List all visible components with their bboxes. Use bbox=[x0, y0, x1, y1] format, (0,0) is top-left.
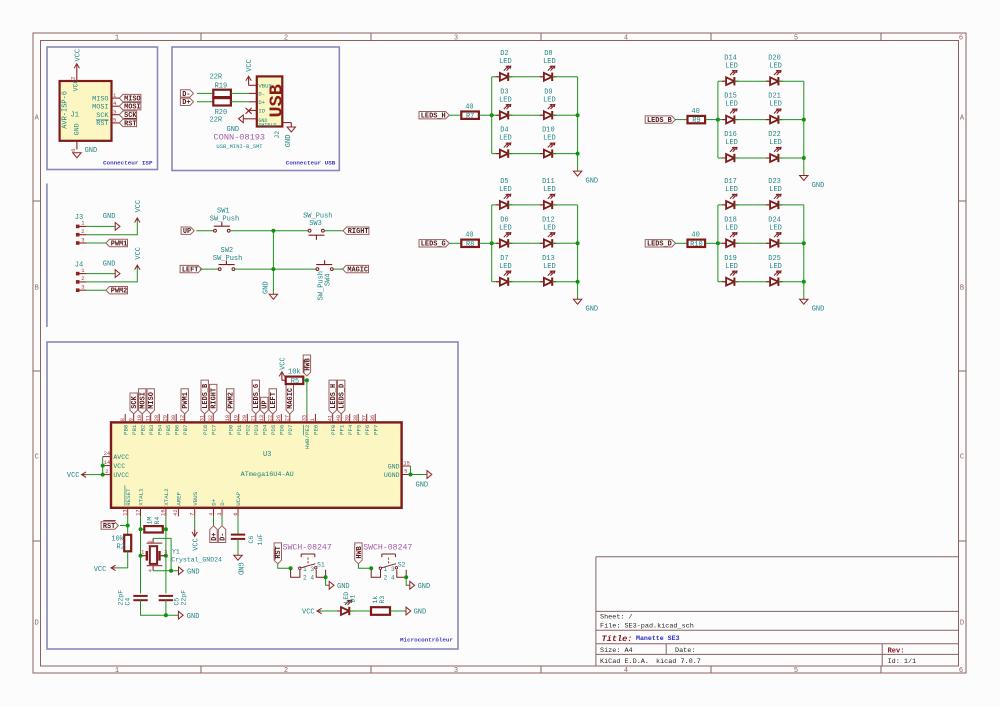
wire R19 to USB bbox=[231, 92, 249, 94]
svg-text:LED: LED bbox=[769, 139, 782, 147]
svg-text:C6: C6 bbox=[248, 536, 255, 544]
svg-text:Rev:: Rev: bbox=[888, 648, 905, 656]
svg-text:B: B bbox=[35, 285, 39, 293]
resistor R10 bbox=[688, 240, 706, 247]
svg-text:5: 5 bbox=[794, 667, 798, 675]
svg-text:2: 2 bbox=[284, 34, 288, 42]
svg-text:RIGHT: RIGHT bbox=[211, 388, 219, 409]
MCU top pins bbox=[124, 414, 126, 423]
svg-text:PB5: PB5 bbox=[165, 424, 172, 435]
svg-text:LED: LED bbox=[725, 224, 738, 232]
wire VCC to D1 bbox=[321, 610, 341, 612]
svg-text:R9: R9 bbox=[692, 117, 700, 125]
svg-text:UP: UP bbox=[262, 400, 270, 408]
svg-text:2 4: 2 4 bbox=[384, 574, 395, 581]
svg-text:33: 33 bbox=[302, 415, 308, 421]
svg-text:LED: LED bbox=[499, 263, 512, 271]
svg-text:SW4: SW4 bbox=[324, 273, 332, 286]
LED D12 bbox=[540, 242, 544, 244]
ground J3 bbox=[115, 223, 120, 231]
svg-text:PD4: PD4 bbox=[261, 424, 268, 435]
wire LEFT to SW2 bbox=[200, 268, 219, 270]
svg-text:D9: D9 bbox=[544, 88, 552, 96]
wire R2 to VCC bbox=[115, 551, 128, 568]
wire D- bbox=[197, 92, 213, 94]
hier label HWB at switch S2 bbox=[355, 543, 362, 564]
svg-text:10: 10 bbox=[137, 415, 143, 421]
svg-text:3: 3 bbox=[454, 34, 458, 42]
svg-text:R19: R19 bbox=[215, 82, 228, 90]
svg-text:D20: D20 bbox=[768, 54, 781, 62]
svg-text:PB6: PB6 bbox=[173, 424, 180, 435]
svg-text:PD2: PD2 bbox=[244, 424, 251, 435]
J1 pin 6 GND bbox=[76, 141, 78, 150]
svg-text:VBUS: VBUS bbox=[258, 82, 272, 89]
ground S1 bbox=[329, 581, 334, 589]
svg-text:LED: LED bbox=[499, 135, 512, 143]
svg-text:GND: GND bbox=[103, 213, 116, 221]
LED D11 bbox=[540, 204, 544, 206]
svg-text:XTAL2: XTAL2 bbox=[163, 488, 170, 506]
svg-text:LEDS_B: LEDS_B bbox=[647, 117, 672, 125]
svg-text:LED: LED bbox=[543, 135, 556, 143]
svg-text:KiCad E.D.A.: KiCad E.D.A. bbox=[600, 658, 649, 666]
svg-text:41: 41 bbox=[327, 415, 333, 421]
ground LEDS_G bbox=[573, 299, 581, 304]
ground crystal bbox=[179, 567, 184, 575]
resistor R8 bbox=[461, 240, 479, 247]
svg-text:Y1: Y1 bbox=[172, 548, 180, 555]
svg-text:PB0: PB0 bbox=[122, 424, 129, 435]
svg-text:GND: GND bbox=[187, 569, 200, 577]
svg-text:PD0: PD0 bbox=[227, 424, 234, 435]
resistor R7 bbox=[461, 112, 479, 119]
svg-text:PF5: PF5 bbox=[355, 424, 362, 435]
svg-text:5: 5 bbox=[113, 117, 116, 124]
svg-text:LED: LED bbox=[499, 96, 512, 104]
LED D22 bbox=[766, 157, 770, 159]
svg-text:31: 31 bbox=[199, 415, 205, 421]
svg-text:D+: D+ bbox=[211, 498, 218, 505]
svg-text:Microcontrôleur: Microcontrôleur bbox=[400, 636, 453, 643]
svg-text:PC6: PC6 bbox=[202, 424, 209, 435]
svg-text:LEDS_G: LEDS_G bbox=[253, 384, 261, 409]
svg-text:D18: D18 bbox=[724, 216, 737, 224]
svg-text:D16: D16 bbox=[724, 131, 737, 139]
svg-text:3: 3 bbox=[113, 109, 116, 116]
svg-text:LEDS_G: LEDS_G bbox=[421, 241, 446, 249]
right rail LEDS_B bbox=[803, 81, 805, 158]
svg-text:1: 1 bbox=[141, 550, 144, 556]
wire S1 to ground bbox=[326, 577, 330, 585]
wire D1 to R3 bbox=[349, 610, 371, 612]
svg-text:40: 40 bbox=[465, 104, 473, 112]
hier label LEDS_D bbox=[645, 240, 675, 247]
svg-text:LED: LED bbox=[769, 186, 782, 194]
wire R3 to ground bbox=[390, 610, 406, 612]
svg-text:LED: LED bbox=[725, 186, 738, 194]
svg-text:VCC: VCC bbox=[302, 609, 315, 617]
svg-text:1M: 1M bbox=[147, 517, 154, 525]
svg-text:PC7: PC7 bbox=[210, 424, 217, 435]
svg-text:1: 1 bbox=[115, 34, 119, 42]
svg-text:D24: D24 bbox=[768, 216, 781, 224]
svg-text:40: 40 bbox=[336, 415, 342, 421]
resistor R9 bbox=[688, 116, 706, 123]
crystal Y1 Crystal_GND24 bbox=[141, 555, 145, 557]
svg-text:2: 2 bbox=[70, 76, 77, 79]
hier label LEFT at MCU bbox=[269, 389, 276, 414]
svg-text:SCK: SCK bbox=[96, 112, 109, 120]
svg-text:LED: LED bbox=[499, 58, 512, 66]
svg-text:18: 18 bbox=[225, 415, 231, 421]
svg-text:VCC: VCC bbox=[94, 566, 107, 574]
svg-text:VCC: VCC bbox=[135, 200, 143, 213]
svg-text:ID: ID bbox=[258, 107, 265, 114]
svg-text:LED: LED bbox=[769, 101, 782, 109]
svg-text:PWM2: PWM2 bbox=[111, 288, 128, 296]
svg-text:2: 2 bbox=[81, 275, 84, 282]
svg-text:C5: C5 bbox=[173, 598, 180, 606]
svg-text:R7: R7 bbox=[466, 113, 474, 121]
svg-text:Sheet: /: Sheet: / bbox=[600, 614, 633, 622]
no-connect X on ID pin bbox=[246, 108, 252, 114]
junction LEDS_G row2 bbox=[576, 241, 580, 245]
ground LEDS_H bbox=[573, 171, 581, 176]
hier label PWM2 at MCU bbox=[227, 389, 234, 414]
ground D1 R3 bbox=[406, 607, 411, 615]
svg-text:7: 7 bbox=[190, 513, 196, 516]
svg-text:26: 26 bbox=[276, 415, 282, 421]
wire J4 pin1 to ground bbox=[86, 273, 115, 275]
svg-text:14: 14 bbox=[104, 460, 110, 466]
svg-text:13: 13 bbox=[123, 509, 129, 515]
LED D7 bbox=[492, 281, 500, 283]
svg-text:D-: D- bbox=[258, 90, 265, 97]
svg-text:MISO: MISO bbox=[148, 392, 156, 409]
LED D17 bbox=[718, 204, 726, 206]
hier label RST at switch S1 bbox=[274, 543, 281, 564]
svg-text:D6: D6 bbox=[500, 216, 508, 224]
svg-text:5: 5 bbox=[404, 469, 407, 475]
svg-text:D22: D22 bbox=[768, 131, 781, 139]
ground J4 bbox=[115, 270, 120, 278]
svg-text:4: 4 bbox=[208, 513, 214, 516]
hier label MOSI bbox=[119, 103, 141, 110]
svg-text:VBUS: VBUS bbox=[192, 491, 199, 505]
svg-text:MAGIC: MAGIC bbox=[287, 388, 295, 409]
wire LEDS_D to ground bbox=[803, 282, 805, 300]
svg-text:RIGHT: RIGHT bbox=[348, 228, 369, 236]
svg-text:GND: GND bbox=[235, 562, 243, 575]
hier label PWM1 at MCU bbox=[181, 389, 188, 414]
hier label RST at MCU bbox=[101, 522, 118, 529]
svg-text:HWB/PE2: HWB/PE2 bbox=[304, 424, 311, 449]
svg-text:R10: R10 bbox=[690, 241, 703, 249]
svg-text:22: 22 bbox=[267, 415, 273, 421]
ground MCU right bbox=[427, 471, 432, 479]
svg-text:LEDS_B: LEDS_B bbox=[202, 384, 210, 409]
svg-text:GND: GND bbox=[418, 583, 431, 591]
LED D18 bbox=[718, 242, 726, 244]
USB pin stubs bbox=[249, 84, 257, 86]
hier label MAGIC bbox=[343, 265, 369, 272]
LED D9 bbox=[540, 114, 544, 116]
svg-text:40: 40 bbox=[691, 232, 699, 240]
svg-text:SWCH-08247: SWCH-08247 bbox=[283, 543, 332, 552]
connector J2 USB body bbox=[257, 76, 283, 126]
svg-text:R4: R4 bbox=[154, 517, 161, 525]
svg-text:30: 30 bbox=[171, 415, 177, 421]
svg-text:29: 29 bbox=[162, 415, 168, 421]
left rail LEDS_H bbox=[491, 77, 493, 154]
svg-text:8: 8 bbox=[120, 418, 126, 421]
svg-text:PF4: PF4 bbox=[347, 424, 354, 435]
section box Connecteur ISP bbox=[47, 47, 158, 170]
svg-text:1: 1 bbox=[115, 667, 119, 675]
capacitor C6 1uF bbox=[237, 516, 239, 534]
hier label RIGHT at MCU bbox=[210, 384, 217, 414]
section box Connecteur USB bbox=[172, 47, 339, 171]
svg-text:SW1: SW1 bbox=[217, 207, 230, 215]
svg-text:40: 40 bbox=[691, 108, 699, 116]
svg-text:VCC: VCC bbox=[246, 59, 254, 72]
svg-text:GND: GND bbox=[187, 613, 200, 621]
LED D19 bbox=[718, 281, 726, 283]
junction after R9 bbox=[705, 119, 718, 121]
hier label UP bbox=[181, 227, 194, 234]
hier label HWB bbox=[303, 355, 310, 376]
svg-text:MOSI: MOSI bbox=[140, 392, 148, 409]
LED D3 bbox=[492, 114, 500, 116]
svg-text:C: C bbox=[960, 454, 964, 462]
MCU right pins GND UGND bbox=[402, 465, 411, 467]
svg-text:21: 21 bbox=[250, 415, 256, 421]
hier label LEDS_H bbox=[419, 112, 449, 119]
svg-text:SHIELD: SHIELD bbox=[258, 122, 276, 128]
svg-text:GND: GND bbox=[85, 147, 98, 155]
power VCC MCU left bbox=[83, 474, 86, 476]
LED D5 bbox=[492, 204, 500, 206]
wire LEDS_D to R10 bbox=[675, 242, 687, 244]
svg-text:AREF: AREF bbox=[176, 491, 183, 505]
hier label MOSI at MCU bbox=[139, 389, 146, 414]
svg-text:LEFT: LEFT bbox=[270, 392, 278, 409]
svg-text:GND: GND bbox=[285, 135, 293, 148]
svg-text:Connecteur USB: Connecteur USB bbox=[286, 160, 336, 167]
svg-text:3: 3 bbox=[81, 284, 84, 291]
svg-text:D11: D11 bbox=[542, 178, 555, 186]
svg-text:SW3: SW3 bbox=[309, 220, 322, 228]
svg-text:S2: S2 bbox=[398, 561, 406, 568]
svg-text:VCC: VCC bbox=[280, 357, 288, 370]
svg-text:SW2: SW2 bbox=[221, 247, 234, 255]
hier label D- input bbox=[180, 90, 193, 97]
svg-text:D2: D2 bbox=[500, 50, 508, 58]
svg-text:12: 12 bbox=[179, 415, 185, 421]
svg-text:D+: D+ bbox=[182, 99, 190, 107]
wire LEDS_G to ground bbox=[577, 282, 579, 300]
svg-text:20: 20 bbox=[242, 415, 248, 421]
svg-text:LED: LED bbox=[543, 224, 556, 232]
svg-text:D7: D7 bbox=[500, 255, 508, 263]
svg-text:AVR-ISP-6: AVR-ISP-6 bbox=[61, 91, 69, 129]
svg-text:D-: D- bbox=[219, 499, 226, 506]
svg-text:USB_MINI-B_SMT: USB_MINI-B_SMT bbox=[216, 143, 263, 150]
svg-text:C4: C4 bbox=[124, 598, 131, 606]
svg-text:PD7: PD7 bbox=[287, 424, 294, 435]
svg-text:4: 4 bbox=[624, 34, 628, 42]
hier label D+ input bbox=[180, 98, 193, 105]
svg-text:3: 3 bbox=[454, 667, 458, 675]
svg-text:PE6: PE6 bbox=[313, 424, 320, 435]
resistor R19 bbox=[213, 90, 231, 97]
svg-text:1 3: 1 3 bbox=[384, 566, 395, 573]
svg-text:RESET: RESET bbox=[125, 488, 132, 506]
svg-text:HWB: HWB bbox=[304, 358, 312, 370]
junction LEDS_B row2 bbox=[802, 118, 806, 122]
svg-text:VCC: VCC bbox=[192, 538, 200, 551]
power VCC J4 bbox=[136, 266, 138, 268]
connector J1 AVR-ISP-6 body bbox=[60, 81, 112, 141]
svg-text:RST: RST bbox=[96, 120, 108, 128]
ground C6 bbox=[234, 555, 242, 560]
svg-text:6: 6 bbox=[959, 34, 963, 42]
svg-text:32: 32 bbox=[208, 415, 214, 421]
hier label LEDS_H at MCU bbox=[329, 380, 336, 414]
power VCC VBUS pin bbox=[194, 516, 196, 529]
svg-text:2: 2 bbox=[284, 667, 288, 675]
svg-text:GND: GND bbox=[416, 481, 429, 489]
svg-text:27: 27 bbox=[284, 415, 290, 421]
svg-text:GND: GND bbox=[586, 306, 599, 314]
wire LEDS_G to R8 bbox=[449, 242, 461, 244]
wire junction to SW3 bbox=[273, 230, 308, 232]
svg-text:28: 28 bbox=[154, 415, 160, 421]
left rail LEDS_G bbox=[491, 205, 493, 282]
junction switches row1 bbox=[271, 229, 275, 233]
svg-text:PF6: PF6 bbox=[364, 424, 371, 435]
svg-text:19: 19 bbox=[233, 415, 239, 421]
svg-text:J1: J1 bbox=[71, 112, 79, 120]
wire GND right bbox=[410, 466, 412, 475]
right rail LEDS_G bbox=[577, 205, 579, 282]
svg-text:VCC: VCC bbox=[113, 463, 125, 470]
svg-text:RST: RST bbox=[103, 523, 115, 531]
svg-text:PB2: PB2 bbox=[139, 424, 146, 435]
wire gnd riser switches bbox=[272, 231, 274, 295]
hier label MISO at MCU bbox=[147, 389, 154, 414]
SHIELD to ground bbox=[282, 122, 291, 124]
svg-text:1: 1 bbox=[310, 418, 316, 421]
wire XTAL2 down bbox=[165, 516, 167, 593]
hier label SCK bbox=[119, 111, 136, 118]
ground LEDS_D bbox=[800, 299, 808, 304]
svg-text:GND: GND bbox=[103, 260, 116, 268]
svg-text:LED: LED bbox=[725, 62, 738, 70]
svg-text:PB7: PB7 bbox=[182, 424, 189, 435]
wire R5 to HWB junction bbox=[304, 379, 307, 381]
svg-text:D14: D14 bbox=[724, 54, 737, 62]
wire VCC rail left bbox=[102, 457, 104, 475]
wire caps to ground bbox=[141, 600, 179, 615]
svg-text:CONN-08193: CONN-08193 bbox=[214, 132, 266, 142]
svg-text:1 3: 1 3 bbox=[303, 566, 314, 573]
hier label UP at MCU bbox=[261, 397, 268, 414]
svg-text:D3: D3 bbox=[500, 88, 508, 96]
svg-text:2: 2 bbox=[81, 228, 84, 235]
svg-text:MAGIC: MAGIC bbox=[347, 267, 368, 275]
svg-text:LED: LED bbox=[499, 224, 512, 232]
svg-text:42: 42 bbox=[173, 509, 179, 515]
wire J4 pin3 bbox=[86, 289, 106, 291]
svg-text:LED: LED bbox=[543, 263, 556, 271]
svg-text:LED: LED bbox=[769, 263, 782, 271]
hier label RIGHT bbox=[343, 227, 369, 234]
svg-text:LED: LED bbox=[543, 96, 556, 104]
junction after R10 bbox=[705, 242, 718, 244]
svg-text:LED: LED bbox=[499, 186, 512, 194]
svg-text:2: 2 bbox=[148, 540, 154, 543]
svg-text:Date:: Date: bbox=[675, 647, 695, 655]
wire junction to SW4 bbox=[273, 268, 316, 270]
svg-text:LEDS_H: LEDS_H bbox=[421, 113, 446, 121]
LED D13 bbox=[540, 281, 544, 283]
left rail LEDS_B bbox=[717, 81, 719, 158]
hier label D+ at MCU bbox=[213, 516, 215, 526]
svg-text:D8: D8 bbox=[544, 50, 552, 58]
junction LEDS_D row3 bbox=[802, 280, 806, 284]
svg-text:LEDS_H: LEDS_H bbox=[330, 384, 338, 409]
svg-text:J2: J2 bbox=[274, 131, 281, 139]
svg-text:6: 6 bbox=[959, 667, 963, 675]
wire R20 to USB bbox=[231, 101, 249, 103]
svg-text:22pF: 22pF bbox=[117, 590, 124, 606]
right rail LEDS_H bbox=[577, 77, 579, 154]
LED D4 bbox=[492, 153, 500, 155]
svg-text:D23: D23 bbox=[768, 178, 781, 186]
svg-text:D4: D4 bbox=[500, 127, 508, 135]
svg-text:LED: LED bbox=[725, 263, 738, 271]
svg-text:GND: GND bbox=[262, 281, 270, 294]
svg-text:LEDS_D: LEDS_D bbox=[647, 241, 672, 249]
svg-text:D19: D19 bbox=[724, 255, 737, 263]
svg-text:D13: D13 bbox=[542, 255, 555, 263]
svg-text:10k: 10k bbox=[288, 369, 301, 377]
svg-text:2: 2 bbox=[105, 469, 108, 475]
LED D25 bbox=[766, 281, 770, 283]
svg-text:LEDS_D: LEDS_D bbox=[339, 384, 347, 409]
svg-text:PB1: PB1 bbox=[131, 424, 138, 435]
svg-text:D21: D21 bbox=[768, 93, 781, 101]
svg-text:13: 13 bbox=[259, 415, 265, 421]
wire J3 pin2 to VCC bbox=[86, 221, 137, 235]
svg-text:16: 16 bbox=[161, 509, 167, 515]
svg-text:LED: LED bbox=[543, 58, 556, 66]
wire SW2 to junction bbox=[235, 268, 274, 270]
hier label LEDS_D at MCU bbox=[338, 380, 345, 414]
svg-text:38: 38 bbox=[353, 415, 359, 421]
svg-text:36: 36 bbox=[370, 415, 376, 421]
svg-text:Id: 1/1: Id: 1/1 bbox=[888, 658, 917, 666]
svg-text:3: 3 bbox=[217, 513, 223, 516]
svg-text:SW_Push: SW_Push bbox=[213, 255, 242, 263]
svg-text:Size: A4: Size: A4 bbox=[600, 647, 633, 655]
svg-text:4: 4 bbox=[624, 667, 628, 675]
section box Microcontroleur bbox=[47, 342, 458, 649]
svg-text:LED: LED bbox=[725, 101, 738, 109]
power VCC R2 bbox=[112, 567, 115, 569]
